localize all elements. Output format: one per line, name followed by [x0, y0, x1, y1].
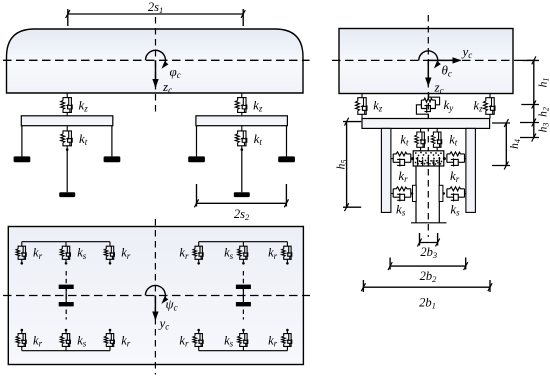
label h2 — [538, 107, 550, 117]
arrow y_c (plan view) — [154, 296, 156, 320]
axle segment (rear, plan) — [242, 289, 244, 302]
dimension h4 — [492, 123, 510, 166]
left wheel (front bogie) — [14, 156, 31, 162]
primary spring k_t left (front view) — [415, 128, 426, 150]
plan bottom left group connecting bar — [22, 350, 110, 352]
dimension 2s1 — [68, 9, 243, 26]
front view horizontal centerline — [332, 59, 536, 61]
axle box (dotted rect) — [413, 151, 444, 166]
dimension 2s2 — [197, 184, 287, 207]
wheel upper (front, plan) — [59, 285, 74, 289]
lateral spring-damper k_r (plan bottom left 3) — [104, 330, 115, 350]
bogie frame (front, side view) — [21, 116, 113, 126]
arrow z_c (front view) — [427, 60, 429, 85]
secondary spring-damper k_z (front bogie, side view) — [61, 93, 73, 116]
rotation arrow theta_c — [419, 51, 441, 69]
car body (side view) — [7, 29, 304, 93]
bogie frame (front view) — [362, 119, 490, 129]
secondary spring-damper k_z (rear bogie, side view) — [235, 93, 247, 116]
wheel lower (front, plan) — [59, 302, 74, 306]
lateral spring-damper k_y — [421, 98, 435, 113]
junction dot left of axle box — [411, 157, 414, 160]
wheel upper (rear, plan) — [236, 285, 251, 289]
lateral spring-damper k_s (plan bottom left 2) — [60, 330, 71, 350]
label h1 — [538, 78, 550, 88]
lateral spring-damper k_r (plan bottom left 1) — [16, 330, 27, 350]
lateral spring-damper k_r (plan bottom right 3) — [282, 330, 293, 350]
lateral spring-damper k_s (plan top right 2) — [238, 242, 249, 262]
lateral spring-damper k_s (plan bottom right 2) — [238, 330, 249, 350]
rotation arrow phi_c — [146, 50, 169, 68]
lateral spring-damper k_r (plan top right 3) — [282, 242, 293, 262]
rail contact block (front) — [59, 192, 75, 197]
dimension h5 — [343, 122, 361, 208]
right post (front view) — [466, 128, 476, 212]
axle legs (front bogie) — [21, 126, 23, 157]
side view vertical centerline — [155, 17, 157, 115]
left wheel (rear bogie) — [188, 156, 205, 162]
lateral spring-damper k_r (plan bottom right 1) — [193, 330, 204, 350]
plan top left group connecting bar — [22, 241, 110, 243]
left post (front view) — [381, 128, 391, 212]
junction dot right of axle box — [443, 157, 446, 160]
dimension 2b1 — [363, 280, 490, 292]
right wheel (rear bogie) — [278, 156, 295, 162]
left plate on column — [413, 185, 417, 201]
center column (front view) — [411, 166, 447, 223]
bogie frame (rear, side view) — [196, 116, 288, 126]
lateral spring-damper k_r (plan top left 1) — [16, 242, 27, 262]
axle segment (front, plan) — [65, 289, 67, 302]
car body (plan view) — [8, 227, 303, 365]
label h5 — [336, 160, 349, 170]
axle legs (rear bogie) — [196, 126, 198, 157]
right plate on column — [439, 185, 443, 201]
side view horizontal centerline — [3, 59, 310, 61]
wheelset axle dashes (front, plan) — [65, 271, 67, 320]
lateral secondary spring k_y linkage — [416, 94, 439, 119]
label h3 — [538, 123, 550, 133]
label h4 — [509, 139, 522, 149]
dimension line h1-h3 (right outer) — [520, 60, 539, 137]
plan view vertical centerline — [154, 219, 156, 375]
car body (front view) — [339, 29, 513, 94]
secondary spring k_z left (front view) — [356, 94, 368, 119]
junction dot below k_t (front) — [66, 148, 69, 151]
lateral damper k_r right (front view) — [465, 158, 466, 160]
lateral spring-damper k_r (plan top right 1) — [193, 242, 204, 262]
right wheel (front bogie) — [104, 156, 121, 162]
center link to rail (rear) — [241, 150, 243, 193]
wheelset axle dashes (rear, plan) — [242, 271, 244, 320]
center link to rail (front) — [66, 150, 68, 193]
yaw damper k_s right (front view) — [465, 193, 466, 195]
primary spring-damper k_t (front bogie) — [61, 126, 73, 149]
wheel lower (rear, plan) — [236, 302, 251, 306]
plan bottom right group connecting bar — [199, 350, 288, 352]
primary spring k_t right (front view) — [431, 128, 442, 150]
rotation arrow psi_c — [145, 286, 168, 304]
rail contact block (rear) — [234, 192, 250, 197]
arrow z_c (side view) — [155, 60, 157, 87]
yaw damper k_s left (front view) — [391, 193, 393, 195]
dimension 2b3 — [420, 233, 438, 246]
arrow y_c (front view) — [428, 59, 460, 61]
front view vertical centerline — [427, 15, 429, 237]
dimension 2b2 — [390, 258, 466, 270]
lateral damper k_r left (front view) — [391, 158, 393, 160]
lateral spring-damper k_r (plan top left 3) — [104, 242, 115, 262]
lateral spring-damper k_s (plan top left 2) — [60, 242, 71, 262]
junction dot below k_t (rear) — [241, 148, 244, 151]
plan view horizontal centerline — [3, 295, 310, 297]
plan top right group connecting bar — [199, 241, 288, 243]
primary spring-damper k_t (rear bogie) — [235, 126, 247, 149]
secondary spring k_z right (front view) — [484, 94, 496, 119]
